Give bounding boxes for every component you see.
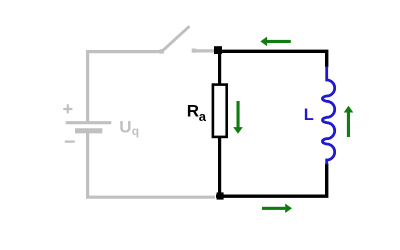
wire: resistor bottom lead bbox=[218, 137, 221, 197]
arrow: green current arrow right of coil (up) bbox=[344, 106, 354, 137]
label U_q bbox=[119, 118, 139, 138]
battery U_q negative plate (short thick) bbox=[75, 128, 102, 133]
arrow: green current arrow top (left) bbox=[260, 37, 290, 47]
svg-text:q: q bbox=[132, 124, 139, 138]
label Ra bbox=[187, 102, 207, 124]
node: bottom junction bbox=[217, 192, 224, 199]
switch hinge dot bbox=[160, 49, 164, 53]
svg-text:L: L bbox=[304, 106, 314, 124]
wire: gray top-left from switch hinge to battery top bbox=[88, 52, 160, 122]
svg-text:a: a bbox=[199, 109, 207, 124]
wire: resistor top lead bbox=[218, 50, 221, 85]
resistor Ra body bbox=[213, 85, 227, 137]
wire: black top from junction to top-right corner, down to coil bbox=[217, 51, 327, 67]
label - (battery negative) bbox=[65, 141, 75, 143]
svg-text:R: R bbox=[187, 102, 199, 121]
inductor L coil bbox=[322, 67, 334, 165]
wire: gray switch terminal to junction bbox=[194, 49, 214, 52]
switch blade (open) bbox=[162, 26, 189, 51]
arrow: green current arrow right of resistor (down) bbox=[233, 101, 243, 134]
node: top junction bbox=[214, 46, 222, 54]
switch right terminal dot bbox=[192, 49, 196, 53]
wire: gray bottom-left from battery bottom to black junction bbox=[88, 133, 215, 197]
wire: black right below coil and bottom back to junction bbox=[216, 164, 327, 197]
battery U_q positive plate (long thin) bbox=[66, 121, 112, 124]
label + (battery positive) bbox=[63, 104, 72, 113]
arrow: green current arrow bottom (right) bbox=[262, 204, 292, 213]
svg-text:U: U bbox=[119, 118, 131, 137]
